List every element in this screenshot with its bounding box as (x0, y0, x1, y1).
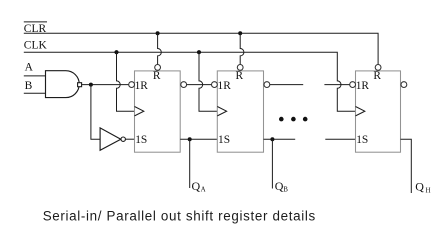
junction dot CLK/U2 clock branch (197, 50, 201, 54)
wire G2 output to U1 1S input (125, 138, 134, 140)
junction dot CLK/U1 clock branch (114, 50, 118, 54)
svg-text:1R: 1R (356, 80, 370, 92)
svg-text:CLK: CLK (24, 40, 48, 52)
flip-flop U1 1R input bubble (129, 82, 135, 88)
flip-flop U2 clock triangle (217, 107, 226, 116)
flip-flop U2 1R input bubble (212, 82, 218, 88)
flip-flop U1 1R label (135, 80, 149, 92)
label QB (275, 179, 289, 194)
flip-flop U3 R bubble (top) (375, 65, 381, 71)
flip-flop U3 1R label (356, 80, 370, 92)
svg-text:1S: 1S (135, 134, 147, 146)
flip-flop U1 clock triangle (135, 107, 144, 116)
svg-text:1S: 1S (218, 134, 230, 146)
wire net CLK: horizontal bus with corner down to U3 clock (24, 52, 356, 111)
flip-flop U2 1S label (218, 134, 230, 146)
flip-flop U1 box (135, 71, 181, 152)
svg-text:R: R (236, 70, 244, 82)
wire CLK branch to U1 clock with hop over R-row wire (117, 52, 135, 111)
flip-flop U3 1S label (356, 134, 368, 146)
inverter G2 bubble (121, 137, 125, 141)
label CLK (24, 40, 48, 52)
svg-text:1S: 1S (356, 134, 368, 146)
wire input B to G1 (24, 92, 46, 94)
flip-flop U2 R label (236, 70, 244, 82)
svg-text:H: H (426, 186, 431, 194)
flip-flop U1 Qbar output bubble (181, 82, 187, 88)
wire node down from G1 output to inverter G2 input (91, 85, 100, 140)
nand gate G1 body (46, 71, 80, 98)
wire U3 Q to QH (401, 139, 412, 193)
svg-text:A: A (201, 186, 206, 194)
wire resumed R-row into U3 1R (324, 84, 349, 86)
svg-text:1R: 1R (135, 80, 149, 92)
flip-flop U2 Qbar output bubble (264, 82, 270, 88)
wire U2 Q toward ellipsis break (264, 138, 296, 140)
junction dot node QB (270, 137, 274, 141)
wire resumed S-row into U3 1S (325, 138, 355, 140)
flip-flop U1 1S label (135, 134, 147, 146)
wire CLR branch to U1 R with hop over CLK (158, 33, 162, 64)
wire CLK branch to U2 clock with hop over R-row wire (199, 52, 217, 111)
junction dot CLR/U2-R branch (238, 31, 242, 35)
overline for CLR (24, 21, 47, 23)
wire net CLR: horizontal bus with corner down to U3 R bubble (24, 33, 378, 64)
svg-text:B: B (283, 186, 288, 194)
flip-flop U1 R label (153, 70, 161, 82)
svg-text:A: A (25, 62, 34, 74)
label QH (415, 180, 430, 195)
ellipsis dots (omitted stages) (279, 117, 308, 122)
flip-flop U2 1R label (218, 80, 232, 92)
wire U1 Qbar to U2 1R (187, 84, 212, 86)
svg-text:Q: Q (192, 179, 201, 193)
flip-flop U3 1R input bubble (350, 82, 356, 88)
wire CLR branch to U2 R with hop over CLK (240, 33, 244, 64)
label A (25, 62, 34, 74)
label B (25, 80, 33, 92)
junction dot CLR/U1-R branch (156, 31, 160, 35)
flip-flop U3 R label (373, 70, 381, 82)
flip-flop U3 Qbar output bubble (401, 82, 407, 88)
inverter G2 triangle (100, 128, 121, 150)
flip-flop U3 clock triangle (356, 107, 365, 116)
flip-flop U3 box (356, 71, 401, 152)
flip-flop U1 R bubble (top) (155, 65, 161, 71)
svg-text:Serial-in/ Parallel out shift: Serial-in/ Parallel out shift register d… (43, 209, 316, 224)
wire QB drop (271, 139, 273, 188)
flip-flop U2 R bubble (top) (237, 65, 243, 71)
label CLR (active-low) (24, 23, 47, 35)
caption text (43, 209, 316, 224)
flip-flop U2 box (217, 71, 263, 152)
svg-text:R: R (153, 70, 161, 82)
label QA (192, 179, 206, 194)
junction dot node QA (188, 137, 192, 141)
wire U2 Qbar toward ellipsis break (270, 84, 303, 86)
wire G1 output to U1 1R input (82, 84, 129, 86)
wire U1 Q to U2 1S (180, 138, 217, 140)
wire input A to G1 (24, 75, 46, 77)
junction dot node G1 output (89, 83, 93, 87)
svg-text:B: B (25, 80, 33, 92)
svg-text:1R: 1R (218, 80, 232, 92)
nand gate G1 negation square (78, 83, 82, 87)
svg-text:R: R (373, 70, 381, 82)
svg-text:Q: Q (415, 180, 424, 194)
wire QA drop (189, 139, 191, 188)
